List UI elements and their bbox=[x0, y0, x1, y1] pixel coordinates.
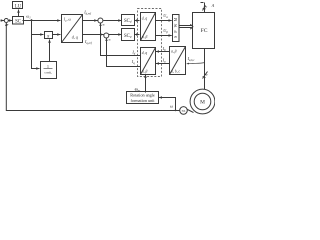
wire: speed feedback bottom line bbox=[6, 23, 179, 111]
node: junction omega branch bbox=[175, 110, 177, 112]
wire: 1/cos up to multiplier bbox=[49, 40, 51, 62]
svg-text:Uβ: Uβ bbox=[163, 28, 168, 34]
wire: S2 to SCd bbox=[103, 20, 121, 22]
svg-text:Iψ, ω: Iψ, ω bbox=[63, 18, 72, 23]
svg-text:Iα: Iα bbox=[162, 58, 166, 64]
block FC frequency converter bbox=[193, 13, 215, 49]
svg-text:d, q: d, q bbox=[72, 34, 78, 40]
block SPWM bbox=[173, 15, 180, 42]
node: junction on omega1 line bbox=[31, 19, 33, 21]
dashed boundary box bbox=[138, 9, 162, 77]
wire: S3 to SCq bbox=[109, 34, 122, 36]
svg-text:formation unit: formation unit bbox=[130, 98, 155, 103]
svg-text:Iq: Iq bbox=[131, 59, 135, 65]
wire: B2 Ualpha to SPWM bbox=[156, 20, 172, 22]
block B4 abc to alphabeta transform bbox=[170, 47, 186, 75]
svg-text:FC: FC bbox=[201, 28, 208, 34]
AC supply top bar bbox=[201, 2, 204, 4]
svg-text:M: M bbox=[174, 17, 178, 21]
AC slash with tildes bbox=[203, 6, 206, 11]
block rotation angle formation unit bbox=[127, 92, 159, 104]
wire: FC down to motor bbox=[204, 49, 206, 90]
block SCd current controller d bbox=[122, 15, 135, 26]
svg-text:α, β: α, β bbox=[142, 35, 148, 40]
svg-text:cosθs: cosθs bbox=[44, 71, 51, 76]
double arrow SPWM to FC bbox=[179, 25, 192, 27]
svg-text:Id,ref: Id,ref bbox=[83, 10, 92, 16]
svg-text:M: M bbox=[200, 100, 205, 106]
wire: branch to multiplier bbox=[32, 34, 44, 36]
wire: SCd to B2 bbox=[135, 20, 140, 22]
svg-text:ω1: ω1 bbox=[26, 13, 31, 19]
block 1/cos fraction bbox=[41, 62, 57, 79]
svg-text:W: W bbox=[174, 23, 178, 27]
minus sign at S1 bbox=[6, 24, 8, 26]
svg-text:SCq: SCq bbox=[124, 34, 132, 39]
svg-text:ω: ω bbox=[170, 104, 173, 109]
wire: reference input to summing node S1 bbox=[1, 20, 5, 22]
minus sign at S2 bbox=[103, 24, 105, 26]
block SCq current controller q bbox=[122, 29, 135, 41]
wire: omega to rotation angle unit bbox=[159, 98, 176, 111]
block B2 dq to alphabeta transform bbox=[141, 13, 156, 41]
squiggle arrow current measurement bbox=[187, 63, 205, 64]
block B1 current reference calculator with diagonal bbox=[62, 15, 83, 43]
wire: multiplier to B1 lower input bbox=[53, 34, 61, 36]
wire: rotation angle to B3 bbox=[145, 75, 147, 93]
wire: Iq feedback to S3 bbox=[107, 38, 141, 67]
wire: B1 to summing node S2 bbox=[83, 20, 98, 22]
motor M outer bbox=[190, 89, 215, 114]
summing junction S2 bbox=[98, 18, 103, 23]
wire: SC to block B1 with junction bbox=[23, 20, 61, 22]
svg-text:Ia,b,c: Ia,b,c bbox=[187, 56, 196, 62]
wire: S1 to SC bbox=[9, 20, 13, 22]
wire: B2 Ubeta to SPWM bbox=[156, 35, 172, 37]
three-phase slash with tildes on motor feed bbox=[203, 72, 208, 79]
svg-text:SCd: SCd bbox=[124, 19, 132, 24]
block SC (speed controller) bbox=[13, 17, 24, 25]
svg-text:Iq,ref: Iq,ref bbox=[84, 39, 93, 45]
summing junction S1 bbox=[4, 19, 8, 23]
wire: SS link to motor bbox=[188, 110, 194, 113]
fraction bar bbox=[44, 68, 53, 70]
svg-text:LU: LU bbox=[15, 4, 22, 9]
motor M inner bbox=[194, 93, 211, 110]
AC supply drop into FC bbox=[204, 3, 206, 13]
wire: B1 to summing node S3 bbox=[83, 34, 104, 36]
svg-text:a, b, c: a, b, c bbox=[171, 69, 180, 74]
svg-text:α, β: α, β bbox=[142, 70, 148, 75]
svg-text:S: S bbox=[174, 36, 178, 38]
block B3 alphabeta to dq transform bbox=[141, 48, 156, 75]
svg-text:d, q: d, q bbox=[142, 51, 148, 56]
label 1 over cos bbox=[44, 65, 51, 75]
svg-text:Uα: Uα bbox=[163, 13, 168, 19]
wire: branch down from junction bbox=[32, 21, 40, 69]
svg-text:A: A bbox=[211, 3, 215, 8]
svg-text:P: P bbox=[174, 30, 178, 33]
speed sensor SS bbox=[180, 107, 188, 115]
wire: B4 to B3 Ialpha bbox=[156, 63, 170, 65]
minus sign at S3 bbox=[109, 39, 111, 41]
summing junction S3 bbox=[104, 33, 109, 38]
wire: SC up to LU bbox=[18, 10, 20, 17]
svg-text:α, β: α, β bbox=[171, 50, 177, 55]
block LU bbox=[13, 2, 23, 9]
wire: B4 to B3 Ibeta bbox=[156, 51, 170, 53]
svg-text:SC: SC bbox=[15, 19, 21, 24]
wire: SCq to B2 bbox=[135, 34, 140, 36]
svg-text:SS: SS bbox=[182, 109, 186, 113]
svg-text:d, q: d, q bbox=[142, 17, 148, 22]
block X multiplier bbox=[45, 32, 53, 39]
svg-text:Id: Id bbox=[131, 49, 135, 55]
wire: Id feedback to S2 bbox=[101, 23, 141, 56]
